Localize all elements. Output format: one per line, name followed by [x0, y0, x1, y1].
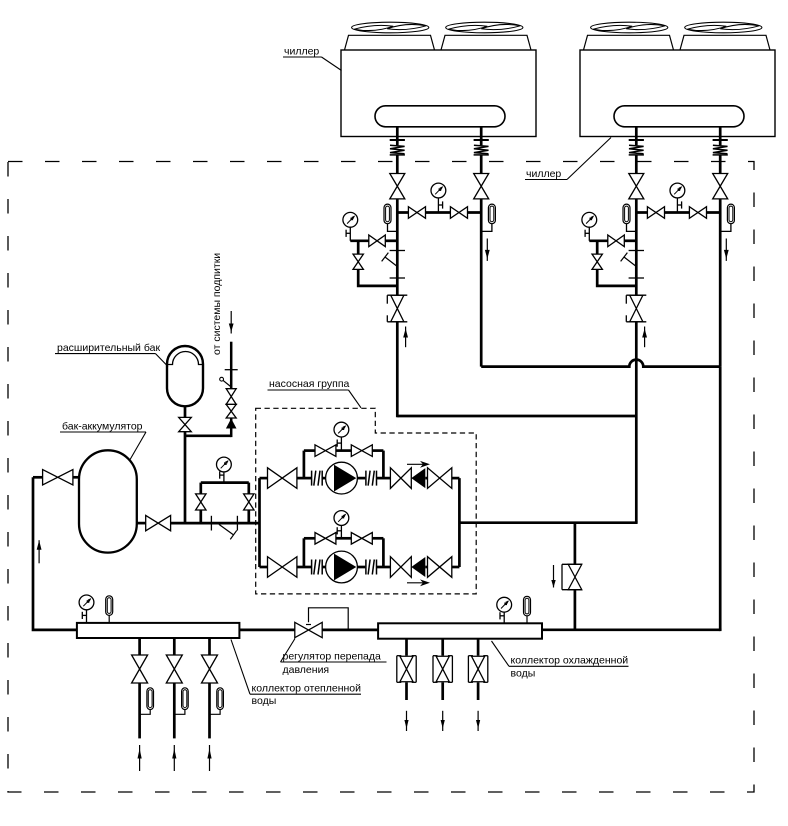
svg-text:воды: воды — [252, 695, 277, 707]
flow arrow into warm outlet 1 — [138, 745, 142, 771]
pump branch 2 line segments — [260, 566, 460, 569]
butterfly valve chiller 2 right — [713, 174, 728, 199]
flow arrow pump 2 — [407, 579, 430, 586]
butterfly valve chiller 2 left — [629, 174, 644, 199]
warm return riser — [33, 477, 77, 630]
pressure gauge manifold chiller 2 — [670, 183, 685, 212]
label expansion tank — [55, 342, 168, 367]
flange tick upper chiller 1 — [390, 250, 405, 252]
warm collector outlet 2 pipe — [173, 638, 176, 738]
flow arrow pump 1 — [407, 461, 430, 468]
label pump group — [268, 378, 362, 408]
accumulator tank — [79, 450, 137, 552]
valve makeup lower — [226, 404, 236, 418]
pressure gauge chilled collector — [497, 597, 512, 623]
valve branch chiller 1 — [369, 235, 386, 247]
flange tick lower chiller 1 — [390, 277, 405, 279]
valve makeup upper — [226, 389, 236, 405]
valve gauge bypass 2 left — [315, 533, 336, 545]
chilled collector outlet 1 pipe — [405, 639, 408, 700]
drain loop chiller 2 — [597, 241, 636, 286]
flange tick inlet right — [236, 516, 238, 531]
thermometer warm outlet 2 — [174, 688, 188, 715]
strainer inlet line — [219, 524, 237, 539]
label accumulator tank — [60, 421, 146, 461]
differential pressure regulator valve — [295, 622, 322, 637]
chiller 1 body — [341, 50, 536, 137]
valve manifold left chiller 2 — [647, 207, 664, 219]
chiller 2 heat exchanger — [614, 106, 744, 127]
flow arrow down chiller 1 return — [485, 239, 490, 261]
valve gauge bypass 1 right — [351, 445, 372, 457]
valve expansion tank — [179, 417, 192, 431]
thermometer chilled collector — [524, 596, 531, 623]
label chilled collector — [492, 641, 629, 680]
manifold line chiller 1 — [397, 211, 481, 214]
valve bypass drop — [562, 564, 582, 589]
strainer chiller 2 — [621, 253, 637, 267]
manifold line chiller 2 — [636, 211, 720, 214]
valve tank outlet — [146, 515, 171, 530]
thermometer chiller 2 right — [720, 204, 734, 231]
chiller 1 supply stub — [396, 127, 399, 145]
chilled collector outlet 3 pipe — [477, 639, 480, 700]
valve drain chiller 2 — [592, 254, 602, 269]
chilled collector outlet 2 pipe — [441, 639, 444, 700]
pressure gauge pump 1 — [334, 422, 349, 450]
flow arrow up riser — [37, 540, 42, 563]
valve branch chiller 2 — [608, 235, 625, 247]
flange tick makeup — [225, 369, 238, 371]
pump inlet line — [137, 522, 260, 525]
chilled water collector — [378, 623, 542, 638]
valve pump 2 outlet — [428, 557, 452, 578]
butterfly valve chiller 1 right — [474, 174, 489, 199]
flexible connector pump 1 inlet — [312, 471, 323, 486]
thermometer warm collector — [106, 596, 113, 623]
expansion tank — [167, 346, 203, 406]
chiller 2 fan housing right — [680, 35, 770, 50]
gauge bypass pump 2 risers — [304, 538, 384, 567]
valve manifold right chiller 1 — [450, 207, 467, 219]
warm collector outlet 3 pipe — [208, 638, 211, 738]
balancing valve chilled outlet 3 — [468, 656, 488, 683]
flow arrow into warm outlet 3 — [207, 745, 211, 771]
pump 1 — [326, 462, 358, 494]
check valve swing makeup — [220, 377, 231, 387]
balancing valve chilled outlet 2 — [433, 656, 453, 683]
flow arrow up chiller 2 supply — [642, 327, 647, 348]
svg-text:давления: давления — [283, 664, 330, 676]
valve warm outlet 1 — [132, 655, 148, 683]
vibration isolator chiller 2 left — [629, 140, 644, 155]
warm water collector — [77, 623, 240, 638]
strainer chiller 1 — [382, 253, 398, 267]
wire right pipe above valve — [719, 155, 722, 174]
svg-text:регулятор перепада: регулятор перепада — [283, 651, 381, 663]
branch line chiller 2 — [589, 239, 636, 242]
pump branch 1 line segments — [260, 477, 460, 480]
thermometer chiller 1 right — [481, 204, 495, 231]
pressure gauge manifold chiller 1 — [431, 183, 446, 212]
wire right pipe above valve — [480, 155, 483, 174]
label chiller 1 — [283, 46, 342, 71]
chiller 1 fan housing left — [345, 35, 435, 50]
chiller 2 body — [580, 50, 775, 137]
flange tick lower chiller 2 — [629, 277, 644, 279]
svg-text:чиллер: чиллер — [526, 168, 561, 180]
chiller 1 supply pipe down — [396, 322, 399, 418]
chiller 1 return stub — [480, 127, 483, 145]
pressure gauge warm collector — [79, 595, 94, 623]
svg-text:коллектор отепленной: коллектор отепленной — [252, 683, 362, 695]
pump discharge header — [458, 478, 461, 567]
gauge bypass pump 1 risers — [304, 451, 384, 479]
pressure gauge inlet — [217, 457, 232, 483]
valve gauge right — [244, 494, 254, 510]
chiller 1 fan 1 — [352, 22, 429, 33]
svg-text:расширительный бак: расширительный бак — [57, 342, 160, 354]
vibration isolator chiller 1 left — [390, 140, 405, 155]
chiller 1 fan housing right — [441, 35, 531, 50]
check valve pump 2 — [411, 557, 425, 577]
pump discharge main — [459, 521, 637, 524]
flow arrow chilled outlet 2 — [441, 711, 445, 731]
wire right pipe down — [480, 199, 483, 367]
flow arrow down chiller 2 return — [724, 239, 729, 261]
label dP regulator — [281, 639, 387, 677]
svg-text:воды: воды — [511, 668, 536, 680]
thermometer chiller 2 left — [623, 204, 636, 231]
dashed system boundary — [8, 162, 754, 793]
makeup flow arrow — [229, 311, 234, 334]
branch line chiller 1 — [350, 239, 397, 242]
svg-text:от системы подпитки: от системы подпитки — [211, 253, 223, 355]
balancing valve chiller 1 — [387, 295, 407, 322]
pressure gauge branch chiller 2 — [582, 212, 597, 240]
butterfly valve chiller 1 left — [390, 174, 405, 199]
makeup pipe — [230, 342, 233, 437]
pump suction header — [258, 478, 261, 567]
balancing valve chilled outlet 1 — [397, 656, 417, 683]
label chiller 2 — [525, 138, 611, 181]
vibration isolator chiller 1 right — [474, 140, 489, 155]
bypass drop pipe — [574, 523, 577, 630]
wire left pipe to manifold — [635, 199, 638, 295]
vibration isolator chiller 2 right — [713, 140, 728, 155]
svg-text:бак-аккумулятор: бак-аккумулятор — [62, 421, 143, 433]
valve manifold left chiller 1 — [408, 207, 425, 219]
flexible connector pump 1 outlet — [366, 471, 377, 486]
chiller 2 return pipe down — [719, 367, 722, 631]
valve drain chiller 1 — [353, 254, 363, 269]
dP regulator impulse line — [306, 608, 348, 630]
thermometer warm outlet 3 — [210, 688, 224, 715]
check valve makeup — [226, 419, 237, 429]
valve pump 2 suction — [268, 557, 297, 578]
chiller 2 supply stub — [635, 127, 638, 145]
chiller 2 supply pipe down — [635, 322, 638, 523]
valve gauge bypass 1 left — [315, 445, 336, 457]
svg-text:чиллер: чиллер — [284, 46, 319, 58]
valve manifold right chiller 2 — [689, 207, 706, 219]
check valve pump 1 — [411, 468, 425, 488]
pump 2 — [326, 551, 358, 583]
thermometer chiller 1 left — [384, 204, 397, 231]
expansion tank membrane — [168, 352, 203, 365]
flow arrow up chiller 1 supply — [403, 327, 408, 348]
gauge bypass over strainer — [201, 483, 249, 523]
wire right pipe down — [719, 199, 722, 367]
drain loop chiller 1 — [358, 241, 397, 286]
valve warm outlet 3 — [202, 655, 218, 683]
warm supply main horizontal — [397, 415, 636, 418]
wire left pipe above valve — [396, 155, 399, 174]
chiller 1 heat exchanger — [375, 106, 505, 127]
chiller 2 return stub — [719, 127, 722, 145]
valve tank inlet — [43, 470, 73, 485]
chiller 2 fan 1 — [591, 22, 668, 33]
valve pump 2 discharge — [390, 557, 411, 578]
valve pump 1 outlet — [428, 468, 452, 489]
label warm collector — [231, 640, 361, 708]
valve warm outlet 2 — [166, 655, 182, 683]
svg-text:коллектор охлажденной: коллектор охлажденной — [511, 655, 629, 667]
flow arrow bypass down — [551, 565, 555, 588]
warm collector outlet 1 pipe — [138, 638, 141, 738]
flow arrow into warm outlet 2 — [172, 745, 176, 771]
pump group dashed enclosure — [256, 408, 477, 594]
expansion tank drop pipe — [184, 406, 187, 522]
valve pump 1 suction — [268, 468, 297, 489]
chilled supply pipe to collector — [542, 628, 720, 631]
balancing valve chiller 2 — [626, 295, 646, 322]
flange tick inlet left — [210, 516, 212, 531]
svg-text:насосная группа: насосная группа — [269, 378, 350, 390]
thermometer warm outlet 1 — [140, 688, 154, 715]
pressure gauge pump 2 — [334, 511, 349, 539]
chiller 2 fan housing left — [584, 35, 674, 50]
wire left pipe above valve — [635, 155, 638, 174]
wire left pipe to manifold — [396, 199, 399, 295]
valve gauge bypass 2 right — [351, 533, 372, 545]
valve gauge left — [196, 494, 206, 510]
valve pump 1 discharge — [390, 468, 411, 489]
collector interconnect pipe — [239, 629, 378, 632]
chilled water main with crossover bridge — [481, 360, 720, 367]
flow arrow chilled outlet 1 — [404, 711, 408, 731]
flexible connector pump 2 inlet — [312, 560, 323, 575]
flange tick upper chiller 2 — [629, 250, 644, 252]
pressure gauge branch chiller 1 — [343, 212, 358, 240]
flow arrow chilled outlet 3 — [476, 711, 480, 731]
chilled main into collector — [719, 629, 722, 632]
chiller 1 fan 2 — [446, 22, 523, 33]
warm return line to tank — [33, 476, 79, 479]
flexible connector pump 2 outlet — [366, 560, 377, 575]
makeup connection line — [185, 434, 231, 437]
chiller 2 fan 2 — [685, 22, 762, 33]
